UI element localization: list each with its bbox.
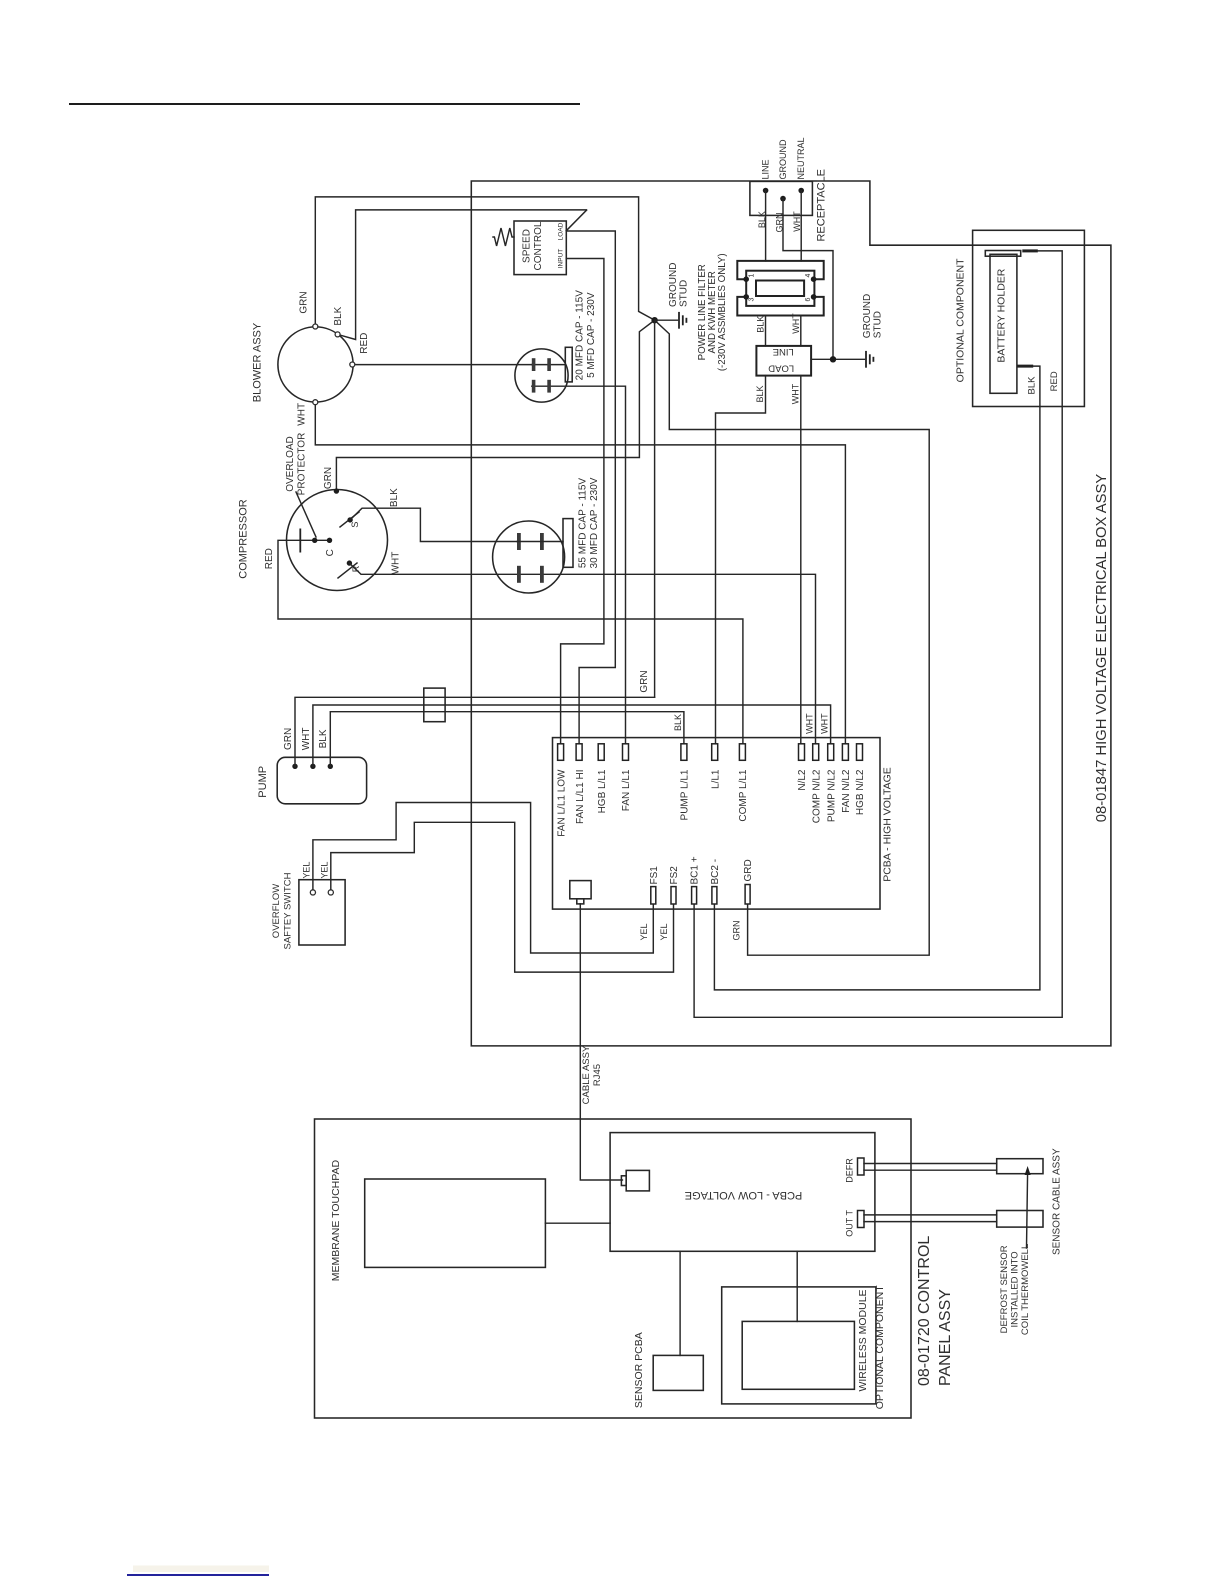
pin DEFR bbox=[858, 1158, 865, 1175]
filter inner frame bbox=[746, 271, 814, 306]
wire overflow switch to PCBA FS1 bbox=[313, 803, 653, 954]
blower pin GRN bbox=[313, 324, 318, 329]
svg-text:WHT: WHT bbox=[391, 552, 402, 575]
wire compressor BLK (S) to 55MFD cap bbox=[350, 508, 517, 541]
cap20 terminal bracket bbox=[565, 347, 572, 382]
pump box bbox=[277, 757, 366, 804]
svg-text:RED: RED bbox=[264, 548, 275, 569]
compressor motor bbox=[287, 490, 388, 591]
svg-text:WHT: WHT bbox=[791, 313, 801, 334]
svg-text:RED: RED bbox=[1049, 371, 1060, 391]
svg-text:LOAD: LOAD bbox=[768, 363, 794, 374]
svg-text:PUMP: PUMP bbox=[257, 766, 269, 798]
wire receptacle WHT to filter bbox=[800, 191, 802, 261]
defrost sensor connector bbox=[997, 1159, 1043, 1174]
power line filter / kwh meter body top bracket bbox=[737, 261, 823, 279]
wire low voltage PCBA to sensor PCBA bbox=[679, 1251, 681, 1355]
pump pin GRN bbox=[292, 764, 297, 769]
svg-text:(-230V ASSMBLIES ONLY): (-230V ASSMBLIES ONLY) bbox=[717, 253, 728, 371]
svg-text:GROUND: GROUND bbox=[668, 263, 679, 307]
footer hyperlink highlight (faint) bbox=[133, 1566, 269, 1573]
svg-text:FAN L/L1: FAN L/L1 bbox=[621, 769, 632, 811]
svg-text:SENSOR CABLE ASSY: SENSOR CABLE ASSY bbox=[1052, 1148, 1063, 1255]
svg-text:BC1 +: BC1 + bbox=[690, 856, 701, 884]
wire blower GRN to ground stud bbox=[315, 197, 654, 327]
svg-text:PANEL ASSY: PANEL ASSY bbox=[937, 1289, 954, 1386]
wire battery BLK to PCBA BC2- bbox=[714, 366, 1040, 990]
pin FS2 bbox=[671, 887, 676, 904]
svg-text:GRN: GRN bbox=[299, 291, 310, 313]
svg-text:BATTERY HOLDER: BATTERY HOLDER bbox=[996, 268, 1008, 362]
svg-text:L/L1: L/L1 bbox=[710, 769, 721, 789]
pin GRD bbox=[745, 885, 750, 905]
svg-text:DEFROST SENSOR: DEFROST SENSOR bbox=[999, 1245, 1010, 1333]
svg-text:WHT: WHT bbox=[805, 713, 815, 734]
cap20 top section line bbox=[532, 364, 566, 366]
cap20 bottom plates bbox=[532, 380, 536, 393]
wire line/load box to ground stud (right) bbox=[811, 358, 864, 360]
svg-text:BLK: BLK bbox=[1027, 376, 1038, 395]
filter innermost frame bbox=[756, 281, 804, 297]
defrost sensor leader arrow bbox=[1027, 1172, 1028, 1248]
RJ45 jack on high voltage PCBA bbox=[570, 881, 591, 899]
blower pin BLK bbox=[335, 332, 340, 337]
svg-text:30 MFD CAP - 230V: 30 MFD CAP - 230V bbox=[589, 477, 600, 568]
wire blower RED to 20MFD cap bbox=[352, 364, 532, 366]
svg-text:COMP L/L1: COMP L/L1 bbox=[738, 769, 749, 821]
line/load box bbox=[756, 346, 811, 376]
wire filter WHT to line/load box bbox=[800, 316, 802, 346]
wire junction to ground symbol bbox=[655, 319, 678, 321]
svg-text:INPUT: INPUT bbox=[558, 249, 565, 269]
svg-text:STUD: STUD bbox=[679, 280, 690, 307]
svg-text:5 MFD CAP - 230V: 5 MFD CAP - 230V bbox=[586, 292, 597, 378]
svg-text:HGB L/L1: HGB L/L1 bbox=[597, 769, 608, 813]
wire pump WHT to PCBA PUMP N/L2 bbox=[313, 705, 831, 766]
filter pin 4 bbox=[811, 276, 817, 282]
svg-text:GRN: GRN bbox=[732, 921, 742, 941]
membrane touchpad bbox=[365, 1179, 546, 1267]
svg-text:FAN L/L1 HI: FAN L/L1 HI bbox=[575, 770, 586, 824]
svg-text:LINE: LINE bbox=[773, 346, 794, 357]
battery holder top cap bbox=[985, 251, 1020, 257]
svg-text:C: C bbox=[325, 549, 336, 556]
svg-text:WHT: WHT bbox=[301, 728, 312, 751]
svg-text:MEMBRANE TOUCHPAD: MEMBRANE TOUCHPAD bbox=[330, 1160, 342, 1282]
svg-text:YEL: YEL bbox=[639, 923, 649, 940]
svg-text:BLOWER ASSY: BLOWER ASSY bbox=[252, 322, 264, 402]
pin COMP N/L2 bbox=[813, 744, 819, 761]
svg-text:WIRELESS MODULE: WIRELESS MODULE bbox=[857, 1289, 869, 1391]
svg-text:WHT: WHT bbox=[791, 383, 801, 404]
receptacle pin NEUTRAL bbox=[798, 188, 804, 194]
wire ground branch to PCBA GRD bbox=[655, 320, 930, 955]
wire pump GRN to ground stud bbox=[295, 697, 655, 766]
ground stud junction node bbox=[651, 317, 657, 323]
svg-text:BLK: BLK bbox=[318, 729, 329, 748]
pin HGB N/L2 bbox=[857, 744, 863, 761]
filter pin 6 bbox=[811, 294, 817, 300]
svg-text:WHT: WHT bbox=[820, 713, 830, 734]
svg-text:COIL THERMOWELL: COIL THERMOWELL bbox=[1020, 1244, 1031, 1335]
svg-text:OUT T: OUT T bbox=[845, 1210, 855, 1237]
svg-text:OPTIONAL COMPONENT: OPTIONAL COMPONENT bbox=[874, 1285, 886, 1409]
wire compressor WHT (R) through 55MFD cap to PCBA COMP N/L2 bbox=[349, 563, 815, 744]
pin BC1+ bbox=[692, 887, 697, 904]
pin FAN L/L1 bbox=[623, 744, 629, 761]
receptacle box bbox=[750, 181, 813, 215]
compressor terminal R dot bbox=[347, 560, 352, 565]
svg-text:N/L2: N/L2 bbox=[797, 769, 808, 791]
overload protector element bar bbox=[299, 529, 301, 551]
leader line overload protector bbox=[296, 492, 316, 537]
svg-text:PCBA - LOW VOLTAGE: PCBA - LOW VOLTAGE bbox=[685, 1189, 803, 1201]
compressor terminal S dot bbox=[347, 517, 352, 522]
wire pump BLK to PCBA PUMP L/L1 bbox=[330, 712, 684, 767]
compressor terminal S tick bbox=[340, 512, 359, 527]
svg-text:GRN: GRN bbox=[639, 670, 650, 692]
svg-text:OVERLOAD: OVERLOAD bbox=[285, 436, 296, 492]
svg-text:FS2: FS2 bbox=[669, 866, 680, 885]
svg-text:BLK: BLK bbox=[755, 385, 765, 402]
header rule bbox=[69, 103, 580, 105]
svg-text:FS1: FS1 bbox=[649, 866, 660, 885]
svg-text:RECEPTACLE: RECEPTACLE bbox=[816, 169, 828, 242]
svg-text:FAN N/L2: FAN N/L2 bbox=[841, 769, 852, 813]
compressor pin GRN dot bbox=[334, 488, 339, 493]
wire receptacle GRN to ground stud junction bbox=[783, 199, 833, 360]
svg-text:PUMP L/L1: PUMP L/L1 bbox=[680, 769, 691, 820]
connector flag on speed control line terminal bbox=[566, 210, 586, 231]
blower pin RED bbox=[350, 362, 355, 367]
svg-text:WHT: WHT bbox=[297, 403, 308, 426]
PCBA low voltage board bbox=[610, 1133, 875, 1252]
wire speed control LOAD to PCBA FAN L/L1 HI bbox=[566, 231, 615, 744]
svg-text:INSTALLED INTO: INSTALLED INTO bbox=[1010, 1251, 1021, 1327]
svg-text:PCBA - HIGH VOLTAGE: PCBA - HIGH VOLTAGE bbox=[882, 767, 894, 882]
filter pin 1 bbox=[743, 276, 749, 282]
ground stud symbol (right) bbox=[865, 352, 867, 367]
svg-text:HGB N/L2: HGB N/L2 bbox=[855, 769, 866, 815]
wire battery RED to PCBA BC1+ bbox=[694, 251, 1062, 1017]
receptacle pin GROUND bbox=[780, 196, 786, 202]
svg-text:SAFTEY SWITCH: SAFTEY SWITCH bbox=[283, 872, 294, 949]
wireless module board bbox=[742, 1321, 854, 1389]
cap55 terminal bracket bbox=[563, 519, 573, 568]
speed control box bbox=[514, 221, 566, 275]
svg-text:GRD: GRD bbox=[743, 859, 754, 881]
svg-text:3: 3 bbox=[749, 297, 756, 301]
pump pin WHT bbox=[310, 764, 315, 769]
PCBA high voltage board bbox=[553, 738, 881, 910]
wire low voltage PCBA to wireless module bbox=[796, 1251, 798, 1321]
pin FAN N/L2 bbox=[842, 744, 848, 761]
wire load WHT to PCBA N/L2 bbox=[800, 376, 802, 744]
svg-text:COMPRESSOR: COMPRESSOR bbox=[238, 499, 250, 579]
compressor terminal R tick bbox=[338, 563, 357, 578]
svg-text:BLK: BLK bbox=[756, 316, 766, 333]
wire ground branch to pump GRN bbox=[654, 320, 656, 697]
battery holder body bbox=[990, 254, 1017, 393]
sensor PCBA box bbox=[653, 1355, 703, 1390]
svg-text:6: 6 bbox=[805, 297, 812, 301]
wire speed control INPUT to PCBA FAN L/L1 LOW bbox=[561, 259, 604, 744]
svg-text:08-01720 CONTROL: 08-01720 CONTROL bbox=[916, 1236, 933, 1386]
svg-text:BLK: BLK bbox=[389, 488, 400, 507]
svg-text:YEL: YEL bbox=[659, 923, 669, 940]
pin FAN L/L1 LOW bbox=[558, 744, 564, 761]
filter pin 3 bbox=[743, 294, 749, 300]
out sensor twin wire bbox=[864, 1214, 997, 1216]
svg-text:YEL: YEL bbox=[320, 862, 330, 879]
out sensor connector bbox=[997, 1211, 1043, 1228]
pin N/L2 bbox=[799, 744, 805, 761]
svg-text:OPTIONAL COMPONENT: OPTIONAL COMPONENT bbox=[955, 258, 967, 382]
wire RJ45 cable to low voltage PCBA bbox=[580, 904, 622, 1180]
wire filter BLK to line/load box bbox=[765, 316, 767, 346]
wire load BLK to PCBA L/L1 bbox=[716, 376, 766, 744]
pin BC2- bbox=[712, 887, 717, 904]
wire overflow switch to PCBA FS2 bbox=[331, 822, 674, 972]
blower pin WHT bbox=[313, 400, 318, 405]
wire compressor RED (C) to PCBA COMP L/L1 bbox=[278, 540, 743, 744]
resistor element on speed control bbox=[493, 228, 514, 246]
svg-text:GRN: GRN bbox=[283, 728, 294, 750]
svg-text:YEL: YEL bbox=[302, 862, 312, 879]
svg-text:GROUND: GROUND bbox=[778, 139, 788, 179]
svg-text:BLK: BLK bbox=[757, 211, 767, 228]
svg-text:OVERFLOW: OVERFLOW bbox=[271, 884, 282, 938]
svg-text:CONTROL: CONTROL bbox=[533, 221, 544, 270]
high voltage electrical box enclosure outline bbox=[471, 181, 1111, 1046]
cap55 top plates bbox=[517, 533, 521, 550]
ground stud symbol (left) bbox=[678, 313, 680, 328]
overflow switch pin 1 bbox=[310, 890, 315, 895]
wire receptacle BLK to filter bbox=[765, 191, 767, 261]
svg-text:LINE: LINE bbox=[761, 159, 771, 179]
wire touchpad to low voltage PCBA bbox=[545, 1222, 610, 1224]
svg-text:GRN: GRN bbox=[323, 467, 334, 489]
pin OUT T bbox=[858, 1211, 865, 1228]
svg-text:CABLE ASSY: CABLE ASSY bbox=[581, 1045, 592, 1104]
svg-text:4: 4 bbox=[805, 273, 812, 277]
cap20 top plates bbox=[532, 358, 536, 371]
pin PUMP N/L2 bbox=[828, 744, 834, 761]
svg-text:55 MFD CAP - 115V: 55 MFD CAP - 115V bbox=[578, 478, 589, 569]
svg-text:GROUND: GROUND bbox=[862, 294, 873, 338]
svg-text:NEUTRAL: NEUTRAL bbox=[796, 137, 806, 179]
svg-text:BLK: BLK bbox=[673, 714, 683, 731]
svg-text:SPEED: SPEED bbox=[522, 229, 533, 263]
svg-text:RED: RED bbox=[359, 333, 370, 354]
svg-text:FAN L/L1 LOW: FAN L/L1 LOW bbox=[556, 769, 567, 837]
RJ45 jack on low voltage PCBA bbox=[626, 1170, 649, 1191]
overflow switch pin 2 bbox=[328, 890, 333, 895]
cap20 bottom section line to PCBA FAN L/L1 bbox=[532, 386, 626, 744]
svg-text:LOAD: LOAD bbox=[558, 222, 565, 240]
defrost sensor twin wire bbox=[864, 1163, 997, 1165]
cable junction rectangle bbox=[424, 688, 445, 722]
control panel assy box bbox=[315, 1119, 912, 1418]
battery positive terminal stub bbox=[1022, 249, 1038, 252]
svg-text:20 MFD CAP - 115V: 20 MFD CAP - 115V bbox=[575, 290, 586, 381]
cap55 bottom plates bbox=[517, 566, 521, 583]
compressor terminal C dots bbox=[312, 538, 317, 543]
svg-text:SENSOR PCBA: SENSOR PCBA bbox=[633, 1332, 645, 1408]
blower assy motor bbox=[278, 327, 353, 402]
svg-text:BLK: BLK bbox=[333, 306, 344, 325]
footer hyperlink underline bbox=[127, 1574, 269, 1576]
pin FS1 bbox=[651, 887, 656, 904]
svg-text:GRN: GRN bbox=[775, 213, 785, 233]
svg-text:BC2 -: BC2 - bbox=[710, 859, 721, 885]
svg-text:S: S bbox=[350, 522, 360, 528]
pump pin BLK bbox=[328, 764, 333, 769]
capacitor 20 MFD (blower) bbox=[515, 349, 568, 402]
wireless module optional component box bbox=[722, 1287, 876, 1404]
svg-text:08-01847 HIGH VOLTAGE ELECTRIC: 08-01847 HIGH VOLTAGE ELECTRICAL BOX ASS… bbox=[1094, 474, 1110, 823]
svg-text:RJ45: RJ45 bbox=[592, 1064, 603, 1086]
receptacle pin LINE bbox=[763, 188, 769, 194]
svg-text:PROTECTOR: PROTECTOR bbox=[297, 433, 308, 496]
pin COMP L/L1 bbox=[739, 744, 745, 761]
svg-text:COMP N/L2: COMP N/L2 bbox=[811, 769, 822, 823]
pin FAN L/L1 HI bbox=[576, 744, 582, 761]
pin PUMP L/L1 bbox=[681, 744, 687, 761]
wire blower WHT to PCBA FAN N/L2 bbox=[315, 402, 845, 744]
wire blower BLK to speed control flag bbox=[338, 210, 587, 340]
svg-text:WHT: WHT bbox=[792, 211, 802, 232]
overflow saftey switch box bbox=[299, 880, 345, 945]
svg-text:1: 1 bbox=[749, 273, 756, 277]
junction dot receptacle GRN bbox=[830, 356, 836, 362]
optional component box (battery) bbox=[973, 230, 1085, 406]
capacitor 55 MFD (compressor) bbox=[493, 521, 565, 593]
pin HGB L/L1 bbox=[598, 744, 604, 761]
svg-text:STUD: STUD bbox=[873, 311, 884, 338]
pin L/L1 bbox=[712, 744, 718, 761]
battery negative terminal stub bbox=[1017, 365, 1033, 368]
svg-text:PUMP N/L2: PUMP N/L2 bbox=[826, 769, 837, 822]
svg-text:DEFR: DEFR bbox=[845, 1158, 855, 1183]
cap55 top lead to bracket bbox=[517, 541, 563, 543]
wire compressor GRN to ground stud bbox=[336, 320, 654, 491]
power line filter body bottom bracket bbox=[737, 297, 823, 316]
